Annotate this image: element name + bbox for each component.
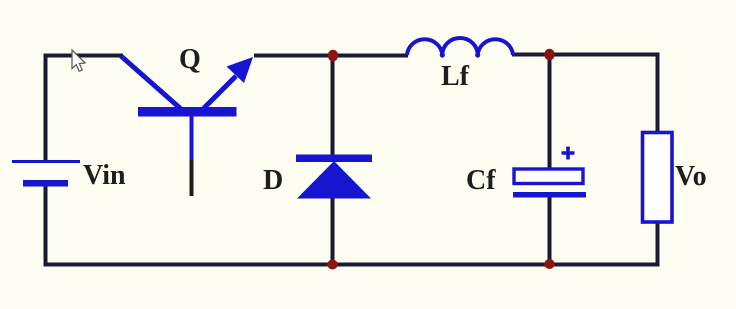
wire diode branch upper [331,55,335,156]
svg-text:Q: Q [179,44,201,75]
wire right vertical upper [656,53,660,134]
resistor load Vo [643,133,673,223]
diode D [296,155,372,199]
inductor Lf [407,38,513,55]
wire transistor base lead lower (black) [190,158,194,196]
wire capacitor branch lower [548,197,552,265]
wire diode branch lower [331,197,335,265]
capacitor Cf [513,147,586,198]
wire top right horizontal [512,53,659,57]
wire top middle horizontal [254,54,408,58]
wire top-left horizontal [44,54,123,58]
node junction dot bottom-left [327,260,337,270]
node junction dot bottom-right [544,259,554,269]
svg-text:Vin: Vin [83,160,126,191]
mouse cursor [72,50,85,71]
node junction dot top-right [544,49,554,61]
battery Vin [12,160,80,187]
node junction dot top-left [328,50,338,62]
svg-text:D: D [263,165,283,196]
svg-text:Cf: Cf [466,165,496,196]
svg-text:Lf: Lf [441,61,470,92]
wire bottom horizontal [44,263,660,267]
wire left vertical lower [44,184,48,267]
wire left vertical upper [44,54,48,162]
svg-text:Vo: Vo [675,161,707,192]
wire right vertical lower [656,222,660,267]
transistor Q1 [121,56,253,160]
wire capacitor branch upper [548,54,552,170]
